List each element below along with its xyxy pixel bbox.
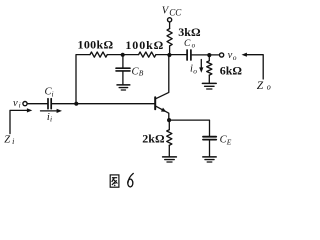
svg-text:i: i xyxy=(19,101,21,110)
svg-text:6kΩ: 6kΩ xyxy=(220,64,243,78)
svg-text:3kΩ: 3kΩ xyxy=(178,25,201,39)
svg-text:C: C xyxy=(184,39,191,49)
svg-text:CC: CC xyxy=(169,7,182,17)
svg-text:Z: Z xyxy=(257,80,264,92)
svg-text:B: B xyxy=(139,69,144,78)
svg-text:100kΩ: 100kΩ xyxy=(77,38,113,52)
svg-text:i: i xyxy=(12,137,14,146)
svg-text:o: o xyxy=(233,53,237,62)
svg-text:E: E xyxy=(226,137,232,146)
svg-text:100kΩ: 100kΩ xyxy=(125,38,164,52)
svg-text:2kΩ: 2kΩ xyxy=(142,132,165,146)
svg-text:o: o xyxy=(267,83,271,92)
svg-text:i: i xyxy=(52,89,54,98)
svg-text:v: v xyxy=(13,98,18,109)
svg-text:o: o xyxy=(193,66,197,75)
svg-text:i: i xyxy=(50,115,52,124)
svg-text:Z: Z xyxy=(4,135,10,146)
svg-text:o: o xyxy=(192,42,196,50)
